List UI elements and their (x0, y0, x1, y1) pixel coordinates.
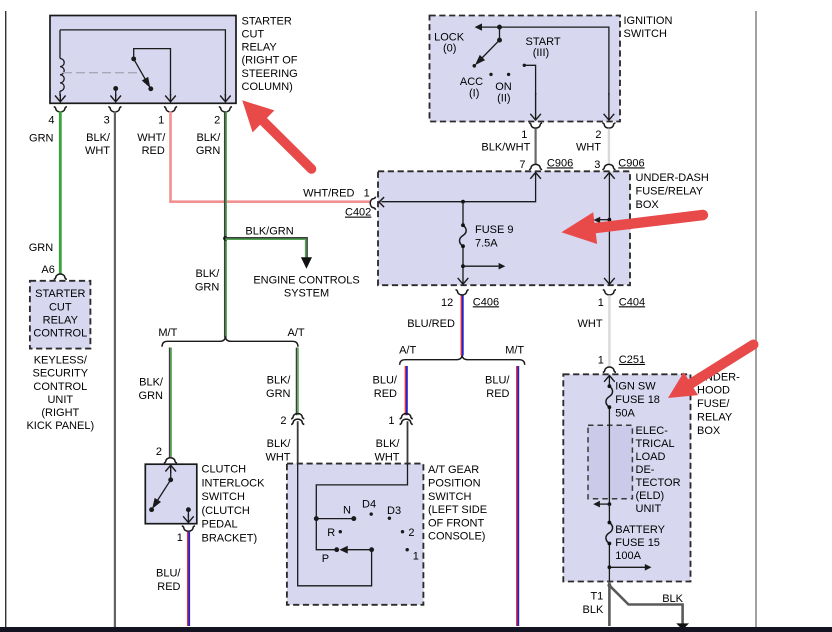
svg-text:BOX: BOX (636, 199, 660, 211)
svg-text:BLU/: BLU/ (485, 375, 510, 387)
branch BLK to ground (609, 585, 682, 623)
svg-text:FUSE/: FUSE/ (697, 398, 730, 410)
svg-text:1: 1 (413, 551, 419, 563)
svg-text:CUT: CUT (49, 301, 72, 313)
svg-text:OF FRONT: OF FRONT (428, 517, 484, 529)
pin12 exit down-arrow (458, 278, 469, 284)
svg-text:TRICAL: TRICAL (636, 438, 675, 450)
label UNDER-HOOD FUSE/RELAY BOX (697, 371, 740, 437)
wire BLU/RED A/T branch to connector 1 (405, 366, 407, 415)
svg-text:GRN: GRN (195, 281, 220, 293)
svg-text:KICK PANEL): KICK PANEL) (26, 420, 94, 432)
svg-text:STEERING: STEERING (242, 68, 298, 80)
wire WHT ignition pin2 (608, 129, 610, 165)
svg-text:COLUMN): COLUMN) (242, 81, 293, 93)
relay switch common riser (pin 1) (134, 49, 171, 96)
arrowhead to engine controls system (301, 257, 312, 269)
branch wire BLK/GRN to engine controls (225, 238, 308, 258)
svg-text:ELEC-: ELEC- (636, 425, 669, 437)
fuse F9 (460, 202, 467, 284)
bottom black bar (0, 627, 832, 632)
connector 12 C406 (456, 290, 469, 295)
ignition switch box (430, 16, 621, 122)
page left border line (5, 11, 7, 627)
svg-text:PEDAL: PEDAL (202, 519, 238, 531)
wire BLU/RED below clutch switch (188, 532, 190, 626)
N stub (315, 517, 356, 521)
svg-text:1: 1 (158, 115, 164, 127)
ignition pin cups (529, 123, 615, 128)
relay coil (60, 30, 64, 96)
svg-text:7.5A: 7.5A (475, 237, 498, 249)
connector double dome at 1 (400, 414, 413, 425)
svg-text:(RIGHT OF: (RIGHT OF (242, 55, 298, 67)
ignition top wire with left arrow (477, 27, 609, 95)
svg-text:SWITCH: SWITCH (624, 28, 667, 40)
svg-text:C404: C404 (619, 296, 645, 308)
svg-text:FUSE 18: FUSE 18 (615, 394, 660, 406)
svg-text:WHT: WHT (374, 451, 399, 463)
svg-text:ACC: ACC (460, 76, 483, 88)
svg-text:D4: D4 (362, 498, 376, 510)
svg-text:A/T: A/T (288, 327, 305, 339)
fuse 18 (606, 376, 613, 504)
svg-text:(LEFT SIDE: (LEFT SIDE (428, 504, 487, 516)
clutch switch up-arrow (165, 465, 176, 473)
label CLUTCH INTERLOCK SWITCH (202, 464, 266, 545)
svg-text:RED: RED (157, 581, 180, 593)
svg-text:2: 2 (595, 129, 601, 141)
svg-text:1: 1 (598, 355, 604, 367)
svg-text:100A: 100A (615, 550, 641, 562)
connector A6 dome (54, 274, 67, 279)
ignition pin down-arrows (530, 93, 614, 120)
svg-text:SWITCH: SWITCH (428, 491, 471, 503)
svg-text:BLK/: BLK/ (139, 377, 164, 389)
svg-text:BLK/: BLK/ (195, 268, 220, 280)
wire BLK/GRN M/T branch (170, 348, 172, 458)
svg-text:1: 1 (388, 415, 394, 427)
svg-text:R: R (327, 527, 335, 539)
svg-text:GRN: GRN (266, 388, 291, 400)
relay pin down-arrows at box bottom (55, 94, 231, 102)
svg-text:(II): (II) (497, 92, 510, 104)
junction + left stub on right vertical (608, 218, 612, 222)
brace 1 (M/T | A/T split) (162, 336, 298, 347)
under-hood fuse/relay box (563, 374, 690, 581)
svg-text:7: 7 (519, 159, 525, 171)
svg-text:IGN SW: IGN SW (615, 381, 656, 393)
red arrow 2 (points at fuse 9) (561, 210, 703, 244)
svg-text:WHT: WHT (265, 451, 290, 463)
label A/T GEAR POSITION SWITCH (428, 464, 487, 543)
svg-text:(CLUTCH: (CLUTCH (202, 505, 250, 517)
svg-text:GRN: GRN (196, 145, 221, 157)
wire into A/T box (left entry) (297, 421, 299, 464)
wire BLK/WHT ignition pin1 (534, 129, 536, 165)
label KEYLESS/SECURITY CONTROL UNIT (26, 355, 94, 433)
svg-text:BLK/: BLK/ (376, 438, 401, 450)
svg-text:2: 2 (214, 115, 220, 127)
svg-text:KEYLESS/: KEYLESS/ (34, 355, 88, 367)
contact dots (339, 512, 409, 551)
svg-text:50A: 50A (615, 408, 635, 420)
svg-text:BLK/WHT: BLK/WHT (481, 142, 530, 154)
svg-text:WHT/RED: WHT/RED (303, 188, 354, 200)
wiper arrow toward P (335, 547, 374, 553)
svg-text:TECTOR: TECTOR (636, 477, 681, 489)
clutch switch internals (150, 471, 190, 517)
box: STARTER CUT RELAY CONTROL (30, 281, 91, 349)
svg-text:BLK: BLK (662, 593, 683, 605)
svg-text:P: P (322, 553, 329, 565)
svg-text:1: 1 (177, 532, 183, 544)
ELD label (636, 425, 681, 515)
under-dash right vertical (C906-3 to C404) (604, 173, 615, 285)
svg-text:BLK/: BLK/ (86, 132, 111, 144)
ELD inner dashed box (588, 425, 632, 499)
svg-text:(RIGHT: (RIGHT (41, 407, 79, 419)
svg-text:C906: C906 (547, 157, 573, 169)
svg-text:1: 1 (598, 297, 604, 309)
svg-text:WHT: WHT (578, 318, 603, 330)
svg-text:(III): (III) (533, 47, 550, 59)
svg-text:GRN: GRN (29, 242, 54, 254)
svg-text:4: 4 (48, 115, 54, 127)
relay inner top/right wire (60, 30, 225, 96)
A/T gear position switch box (287, 464, 424, 605)
svg-text:M/T: M/T (505, 345, 524, 357)
svg-text:BLK/: BLK/ (196, 132, 221, 144)
svg-text:RED: RED (374, 388, 397, 400)
svg-text:UNIT: UNIT (47, 394, 73, 406)
svg-text:FUSE 9: FUSE 9 (475, 224, 514, 236)
svg-text:UNIT: UNIT (636, 503, 662, 515)
svg-text:WHT: WHT (576, 142, 601, 154)
svg-text:CLUTCH: CLUTCH (202, 464, 247, 476)
START branch to pin 1 (524, 65, 535, 95)
arrowhead exiting to C402 (379, 197, 384, 207)
svg-text:STARTER: STARTER (35, 288, 85, 300)
fuse9 right stub arrow (463, 265, 499, 267)
relay K1 box: STARTER CUT RELAY (50, 16, 236, 104)
svg-text:BRACKET): BRACKET) (202, 532, 258, 544)
svg-text:C906: C906 (618, 157, 644, 169)
wire BLU/RED M/T branch (full drop) (517, 366, 519, 626)
connector cup under clutch switch (182, 526, 195, 531)
svg-text:LOCK: LOCK (434, 31, 465, 43)
ELD tap left stub (608, 502, 612, 506)
svg-text:C406: C406 (473, 296, 499, 308)
svg-text:1: 1 (521, 129, 527, 141)
svg-text:RELAY: RELAY (43, 314, 79, 326)
ground splice triangle (676, 623, 689, 629)
svg-text:BLU/RED: BLU/RED (407, 318, 455, 330)
svg-text:RELAY: RELAY (697, 412, 733, 424)
wire WHT C404 to C251 (608, 295, 610, 367)
under-dash pin7 entry up-arrow and wire (382, 173, 541, 202)
wire BLK/GRN pin2 down to brace (225, 111, 227, 337)
svg-text:CUT: CUT (242, 29, 265, 41)
A/T switch wiring path (right entry) (316, 464, 407, 550)
ignition junction and switch arm (476, 25, 501, 63)
svg-text:IGNITION: IGNITION (624, 15, 673, 27)
svg-text:3: 3 (594, 159, 600, 171)
svg-text:BLK/GRN: BLK/GRN (245, 226, 293, 238)
svg-text:CONTROL: CONTROL (33, 381, 87, 393)
battery stub right arrow (608, 565, 612, 569)
svg-text:A6: A6 (41, 264, 54, 276)
svg-text:BLU/: BLU/ (373, 375, 398, 387)
svg-text:3: 3 (104, 115, 110, 127)
svg-text:WHT/: WHT/ (137, 132, 166, 144)
svg-text:RED: RED (486, 388, 509, 400)
connector dome above clutch switch (164, 458, 177, 463)
svg-text:A/T GEAR: A/T GEAR (428, 464, 479, 476)
svg-text:FUSE 15: FUSE 15 (615, 537, 660, 549)
svg-text:D3: D3 (387, 505, 401, 517)
clutch interlock switch box (145, 464, 197, 524)
svg-text:2: 2 (280, 415, 286, 427)
svg-text:N: N (343, 504, 351, 516)
svg-text:1: 1 (364, 188, 370, 200)
red arrow 1 (points at relay) (242, 100, 315, 172)
wire BLU/RED from C406 to brace 2 (461, 295, 463, 355)
wire WHT/RED pin1 to C402 (171, 111, 371, 201)
svg-text:(I): (I) (469, 88, 479, 100)
wire BLK/WHT pin3 (full height) (114, 111, 116, 627)
svg-text:2: 2 (156, 446, 162, 458)
svg-text:(0): (0) (443, 43, 456, 55)
svg-text:2: 2 (408, 527, 414, 539)
clutch switch down-arrow pin 1 (183, 515, 194, 523)
connector C402 dome (open right) (370, 197, 375, 210)
A/T switch wiring path (left entry) (298, 464, 372, 586)
label STARTER CUT RELAY (242, 15, 298, 93)
relay pin cups (connector halves) (54, 107, 232, 112)
under-hood entry up-arrow (604, 376, 615, 382)
connector 1 C404 (603, 290, 616, 295)
svg-text:STARTER: STARTER (242, 15, 292, 27)
svg-text:LOAD: LOAD (636, 451, 666, 463)
brace 2 (A/T | M/T split) (400, 355, 525, 365)
fuse 15 (606, 504, 613, 581)
under-dash fuse/relay box (378, 171, 630, 285)
svg-text:C402: C402 (345, 207, 371, 219)
svg-text:SWITCH: SWITCH (202, 491, 245, 503)
svg-text:RED: RED (142, 145, 165, 157)
junction node on BLK/GRN (223, 236, 228, 241)
svg-text:DE-: DE- (636, 464, 655, 476)
svg-text:FUSE/RELAY: FUSE/RELAY (636, 186, 704, 198)
svg-text:HOOD: HOOD (697, 385, 730, 397)
svg-text:(ELD): (ELD) (636, 490, 665, 502)
svg-text:C251: C251 (619, 354, 645, 366)
wire into A/T box (right entry) (407, 421, 409, 464)
svg-text:GRN: GRN (139, 390, 164, 402)
connector double dome at 2 (291, 414, 304, 425)
svg-text:BLU/: BLU/ (156, 568, 181, 580)
svg-text:BLK/: BLK/ (267, 438, 292, 450)
svg-text:GRN: GRN (29, 132, 54, 144)
wire BLK below under-hood box (608, 584, 612, 588)
red arrow 3 (points at fuse 18) (668, 340, 756, 398)
svg-text:WHT: WHT (85, 145, 110, 157)
svg-text:CONTROL: CONTROL (33, 328, 87, 340)
svg-text:BLK/: BLK/ (267, 375, 292, 387)
wire GRN pin4 (59, 111, 62, 273)
relay switch arm (132, 57, 153, 90)
page right gray line (755, 11, 757, 627)
svg-text:UNDER-DASH: UNDER-DASH (636, 172, 709, 184)
svg-text:ON: ON (495, 81, 512, 93)
svg-text:BATTERY: BATTERY (615, 524, 665, 536)
fuse 9 junction (461, 200, 465, 204)
svg-text:T1: T1 (590, 591, 603, 603)
svg-text:BOX: BOX (697, 425, 721, 437)
wire BLK/GRN A/T branch (297, 348, 299, 416)
svg-text:RELAY: RELAY (242, 42, 278, 54)
svg-text:BLK: BLK (583, 604, 604, 616)
svg-text:12: 12 (441, 297, 453, 309)
relay pin 3 stub (114, 87, 118, 96)
svg-text:M/T: M/T (158, 327, 177, 339)
svg-text:SECURITY: SECURITY (32, 368, 88, 380)
svg-text:POSITION: POSITION (428, 477, 481, 489)
svg-text:A/T: A/T (399, 345, 416, 357)
svg-text:ENGINE CONTROLS: ENGINE CONTROLS (253, 275, 359, 287)
svg-text:INTERLOCK: INTERLOCK (202, 477, 266, 489)
ignition contacts (473, 64, 527, 77)
svg-text:SYSTEM: SYSTEM (284, 288, 329, 300)
svg-text:CONSOLE): CONSOLE) (428, 531, 485, 543)
relay dashed actuation line (63, 72, 138, 74)
